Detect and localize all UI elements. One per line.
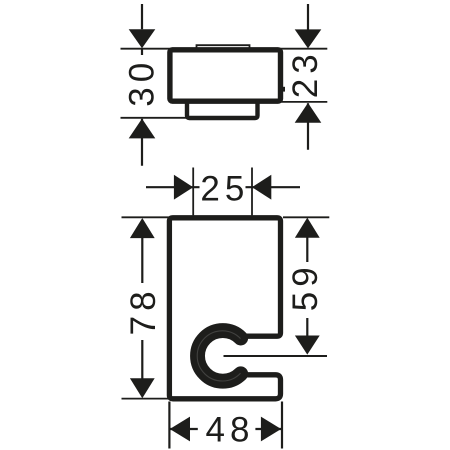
dimension 78: line <box>141 237 143 379</box>
extension line: 25 left <box>192 168 194 216</box>
extension line: profile top right (59 top) <box>283 216 329 218</box>
extension line: profile top left (78 top) <box>122 216 170 218</box>
dimension 23: top arrow <box>295 29 322 48</box>
svg-text:59: 59 <box>286 262 325 311</box>
profile: C-clamp mid highlight <box>197 331 240 381</box>
dimension 78: top arrow <box>130 218 155 238</box>
dimension 59: top arrow <box>295 218 320 238</box>
extension line: profile bottom left (78 bottom) <box>122 398 170 400</box>
extension line: 25 right <box>251 168 253 216</box>
dimension 23: bottom arrow <box>295 103 322 123</box>
svg-text:30: 30 <box>122 58 161 107</box>
dimension 78: bottom arrow <box>130 378 155 398</box>
profile: C-clamp ring <box>198 331 241 382</box>
top view: body outline <box>170 50 281 101</box>
top view: right edge nub <box>282 87 285 92</box>
extension line: top-view top edge left <box>121 48 171 50</box>
svg-text:23: 23 <box>286 49 325 98</box>
profile: main outline <box>169 218 280 399</box>
dimension 30: top arrow <box>129 29 156 48</box>
dimension 59: bottom arrow <box>295 336 320 355</box>
profile: slot centre line / extension 59 bottom <box>224 355 328 357</box>
dimension 48: right arrow <box>261 417 281 442</box>
dimension 25: left arrow <box>174 175 193 200</box>
dimension 48: line <box>170 428 281 430</box>
svg-text:78: 78 <box>124 286 163 335</box>
extension line: top-view top edge right <box>280 48 327 50</box>
dimension 25: line <box>146 186 300 188</box>
dimension 30: line <box>141 4 143 166</box>
top view: clamp bump line <box>197 45 250 51</box>
dimension 30: bottom arrow <box>129 119 156 139</box>
svg-text:25: 25 <box>200 170 249 209</box>
extension line: top-view bottom edge right <box>280 101 327 103</box>
dimension 59: line <box>306 236 308 337</box>
extension line: 48 right <box>281 402 283 449</box>
svg-text:48: 48 <box>206 411 255 450</box>
top view: wall plate step <box>187 100 258 119</box>
extension line: step bottom left <box>121 117 188 119</box>
dimension 23: line <box>307 4 309 150</box>
dimension 48: left arrow <box>170 417 190 442</box>
dimension 25: right arrow <box>252 175 271 200</box>
extension line: 48 left <box>168 402 170 449</box>
